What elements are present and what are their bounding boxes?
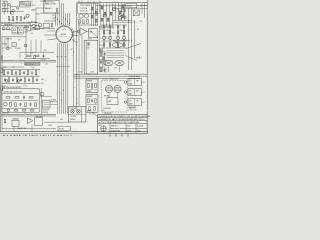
wire [102,48,104,72]
wire [99,59,106,61]
wire [78,24,98,26]
svg-text:115V 50/60: 115V 50/60 [104,108,111,110]
capacitor C55 [103,57,105,60]
resistor R84 [95,99,96,104]
wire [7,37,9,48]
wire [113,39,130,41]
wire [124,3,126,21]
wire [87,89,97,91]
resistor R3 [8,16,9,20]
jack J8 [124,101,126,103]
winding [107,54,125,56]
svg-text:TO PWR: TO PWR [40,59,46,61]
wire [63,43,65,113]
transformer label frame [77,3,99,13]
junction [127,19,130,22]
capacitor C21 [28,78,30,82]
svg-text:6L6: 6L6 [87,47,90,49]
svg-text:.022: .022 [100,61,103,63]
wire [135,124,137,134]
junction [7,75,10,78]
svg-text:.02: .02 [26,74,28,76]
resistor R37 [35,103,36,107]
svg-text:1 2 3 4: 1 2 3 4 [20,4,24,6]
fuse F1 [1,69,3,73]
junction [16,21,19,24]
wire [20,51,54,53]
wire [98,123,148,125]
svg-text:EXT: EXT [129,101,132,103]
tube V9 [102,36,105,39]
wire [67,13,69,26]
rectifier block D2 [107,98,118,105]
junction [130,39,133,42]
capacitor C13 [31,71,33,75]
wire [2,68,41,70]
wire [89,112,91,115]
wire [115,3,117,21]
resistor R32 [15,97,19,98]
svg-text:V3: V3 [10,30,12,32]
scale bar [3,135,72,136]
junction [35,21,38,24]
lamp DS3 [17,80,20,83]
junction [54,16,57,19]
wire [20,2,31,4]
module A1 [35,118,43,125]
wire [2,10,24,12]
resistor R27 [24,78,26,82]
output transformer T2 [112,43,123,48]
svg-text:SPK: SPK [136,101,139,103]
svg-text:25uF: 25uF [31,67,34,69]
wire [92,112,94,115]
wire [74,73,147,75]
wire [3,107,39,109]
svg-text:BRN: BRN [115,41,118,43]
capacitor C32 [109,26,111,29]
resistor R86 [94,106,95,110]
wire [112,3,114,26]
resistor R77 [91,84,92,89]
wire [89,29,98,38]
tube V2A [11,11,14,14]
junction [68,22,71,25]
svg-text:PWR TRANS: PWR TRANS [80,4,91,7]
svg-text:+465: +465 [30,33,33,35]
wire [40,12,59,14]
resistor R69 [122,5,124,8]
svg-text:REV DRIVE: REV DRIVE [36,116,43,118]
resistor R85 [89,106,90,110]
svg-text:VOLTS: VOLTS [20,2,25,4]
rectifier D1 [7,109,10,112]
resistor R88 [100,49,102,52]
wire [2,128,56,130]
wire [78,20,80,106]
junction [62,89,65,92]
wire [103,3,105,26]
jack box J4 [128,89,141,96]
svg-text:DWG: DWG [127,126,130,128]
resistor R31 [6,97,10,98]
wire [1,25,33,27]
svg-text:SPK: SPK [136,91,139,93]
wire [119,66,121,72]
reverb box [86,79,98,92]
junction [31,75,34,78]
wire [44,121,70,123]
wire [134,99,136,106]
transformer T3 [104,60,113,66]
wire [1,59,56,61]
svg-text:MOLEX 4P: MOLEX 4P [42,110,49,112]
svg-text:SPEED: SPEED [87,110,92,112]
wire [110,127,147,129]
tube V7 [79,14,83,18]
lamp DS8 [124,16,126,18]
wire [3,99,39,101]
wire [65,43,67,113]
resistor R49 [107,18,109,21]
wire [1,37,3,130]
capacitor C28 [92,15,94,18]
wire [2,92,39,94]
svg-text:BK: BK [96,15,98,17]
power transformer T1 [133,10,139,16]
resistor R13 [3,71,5,75]
wire [63,3,65,13]
wire [0,131,148,133]
wire [9,6,11,14]
svg-text:10K: 10K [18,40,21,42]
wire [100,3,102,26]
svg-text:EXT: EXT [129,91,132,93]
wire [117,93,119,98]
svg-text:VIB CH: VIB CH [2,1,7,3]
junction [109,75,112,78]
wire [77,2,147,4]
capacitor C25 [20,102,22,106]
svg-text:B+ 460: B+ 460 [78,72,83,74]
lamp DS1 [6,47,9,50]
svg-text:.1 600V: .1 600V [22,86,27,88]
wire [141,3,143,14]
svg-text:100K: 100K [36,14,39,16]
wire [47,30,56,32]
wire [81,107,83,122]
junction [28,21,31,24]
svg-text:P3: P3 [76,103,78,105]
wire [40,95,52,97]
wire [126,56,138,61]
wire [81,1,83,3]
svg-text:.001: .001 [105,37,108,39]
wire [73,35,78,37]
capacitor C1 [24,16,26,20]
wire [109,3,111,26]
junction [32,51,35,54]
wire [26,28,44,31]
transformer T5 [114,85,121,92]
svg-text:EXT: EXT [129,81,132,83]
resistor R33 [29,97,33,98]
wire [112,8,147,10]
resistor R5 [16,16,17,20]
wire [101,47,127,49]
resistor R7 [25,27,29,28]
svg-text:BR: BR [96,9,98,11]
resistor R35 [15,103,16,107]
fold marks [109,134,129,136]
wire [65,13,67,26]
wire [1,22,39,24]
fuse block F3 [126,4,137,8]
resistor R46 [101,6,103,9]
wire [50,103,57,105]
resistor R36 [25,103,26,107]
wire [31,124,33,131]
svg-text:470: 470 [22,67,25,69]
resistor R61 [100,68,101,72]
note box [44,0,60,13]
jack J2 [77,110,81,114]
resistor R4 [12,17,13,21]
junction [75,74,78,77]
junction [78,59,81,62]
wire [29,23,31,30]
junction [66,20,69,23]
junction [58,20,61,23]
capacitor C11 [23,71,25,75]
svg-text:.022 1500: .022 1500 [8,20,14,22]
svg-text:BLK: BLK [102,110,105,112]
resistor R56 [109,43,110,46]
resistor R63 [104,60,105,64]
jack J10 [2,3,5,6]
svg-text:1K: 1K [112,27,114,29]
wire [30,28,55,30]
tone block [35,25,40,29]
svg-text:FOOT SW: FOOT SW [70,108,77,110]
pilot lamp DS4 [4,102,8,106]
resistor R10 [35,55,39,56]
svg-text:4.7K: 4.7K [3,86,6,88]
capacitor C30 [101,18,103,21]
wire [43,103,49,105]
svg-text:SCRN: SCRN [90,72,94,74]
grid stopper R50 [88,43,90,46]
tone block 2 [43,23,49,27]
note tag [58,126,71,131]
junction [75,44,78,47]
tube V13 [103,14,106,17]
resistor R17 [19,71,21,75]
resistor R51 [103,30,104,34]
capacitor C35 [104,52,106,56]
wire [69,13,71,26]
svg-text:B+: B+ [79,1,81,3]
svg-text:BL RD YE: BL RD YE [80,10,88,12]
junction [72,51,75,54]
resistor R15 [11,71,13,75]
pot VR3 [32,24,36,28]
capacitor can C2 [12,27,17,34]
svg-text:YEL: YEL [70,49,73,51]
wire [108,93,110,98]
junction [8,21,11,24]
lamp DS6 [24,44,27,47]
capacitor C7 [7,71,9,75]
tube V2B [26,14,29,17]
wire [98,117,148,119]
junction [42,51,45,54]
resistor R42 [83,20,84,24]
resistor R57 [117,43,118,46]
wire [40,41,42,53]
wire [61,3,63,13]
connector CP2 [42,100,50,108]
transformer T6 [115,60,124,66]
title block [98,115,148,134]
winding [107,50,125,52]
jack J11 [2,8,5,11]
jack box J5 [128,99,141,106]
resistor R23 [8,78,10,82]
svg-text:450V: 450V [25,31,28,33]
capacitor C27 [92,7,94,10]
wire [50,100,57,102]
resistor R71 [124,9,126,12]
chevron [62,29,66,30]
wire [141,91,145,93]
svg-text:MID 10K: MID 10K [31,22,36,24]
wire [35,8,37,29]
wire [0,0,2,132]
jack box J3 [128,79,141,86]
svg-text:220: 220 [105,69,108,71]
wire [2,75,41,77]
wire [57,43,59,113]
wire [1,23,30,25]
transformer T4 [105,85,112,92]
wire [61,43,63,113]
wire [56,66,70,68]
pot VR2 [7,27,10,30]
resistor R19 [27,71,29,75]
wire [112,3,119,10]
svg-text:220K: 220K [14,74,17,76]
wire [123,25,125,48]
tube V12 [119,11,123,15]
capacitor C37 [104,68,106,72]
svg-text:VIB REV: VIB REV [70,119,76,121]
svg-text:100K: 100K [3,67,6,69]
resistor R39 [22,110,26,111]
wire [74,75,147,77]
lamp DS2 [5,80,8,83]
capacitor C34 [123,26,125,29]
resistor R76 [88,83,89,88]
wire [96,5,147,7]
resistor R55 [103,43,104,46]
winding [107,56,125,58]
capacitor C9 [15,71,17,75]
wire [67,43,69,113]
phase inverter U2 [80,28,87,35]
wire [44,20,56,22]
wire [36,7,44,9]
wire [2,7,9,9]
wire [93,1,95,3]
svg-text:470: 470 [112,32,114,34]
wire [117,25,119,48]
junction [62,16,65,19]
svg-text:220K: 220K [120,30,123,32]
wire [90,3,92,26]
svg-text:SPKR 4: SPKR 4 [136,58,142,60]
svg-text:1500: 1500 [3,74,6,76]
resistor R21 [35,71,37,75]
svg-text:6L6GC: 6L6GC [88,39,92,41]
vibrato box [86,94,98,112]
wire [69,113,86,115]
junction [48,27,51,30]
terminal strip TS1 [25,63,40,66]
junction [56,18,59,21]
voltage chart [20,1,31,7]
wire [125,124,127,134]
logo [101,126,106,131]
wire [87,104,97,106]
svg-text:GND: GND [45,64,48,66]
wire [0,132,148,134]
junction [58,74,61,77]
wire [121,3,123,21]
capacitor can C3 [18,27,23,34]
schematic sheet [0,0,148,134]
junction [64,18,67,21]
svg-text:330: 330 [44,50,47,52]
wire [43,0,45,13]
svg-text:REVERB: REVERB [87,80,93,82]
resistor R52 [109,30,110,34]
wire [99,25,114,27]
svg-text:117V: 117V [139,21,142,23]
wire [1,113,56,115]
svg-text:P/N 022798: P/N 022798 [104,113,112,115]
svg-text:TP 460V: TP 460V [15,48,21,50]
resistor R44 [96,11,98,14]
arrowheads [57,56,67,57]
wire [101,40,127,42]
wire [106,3,108,26]
svg-text:DWN: DWN [99,125,102,127]
capacitor C33 [117,26,119,29]
pot VR1 [2,27,5,30]
wire [74,77,140,79]
wire [113,20,132,22]
capacitor C31 [103,26,105,29]
junction [99,77,102,80]
tube V12 [122,36,125,39]
connector CP1 [40,93,43,96]
winding [107,52,125,54]
svg-text:RED: RED [41,79,44,81]
wire [128,8,130,70]
tube V14 [16,7,18,9]
wire [134,89,136,96]
